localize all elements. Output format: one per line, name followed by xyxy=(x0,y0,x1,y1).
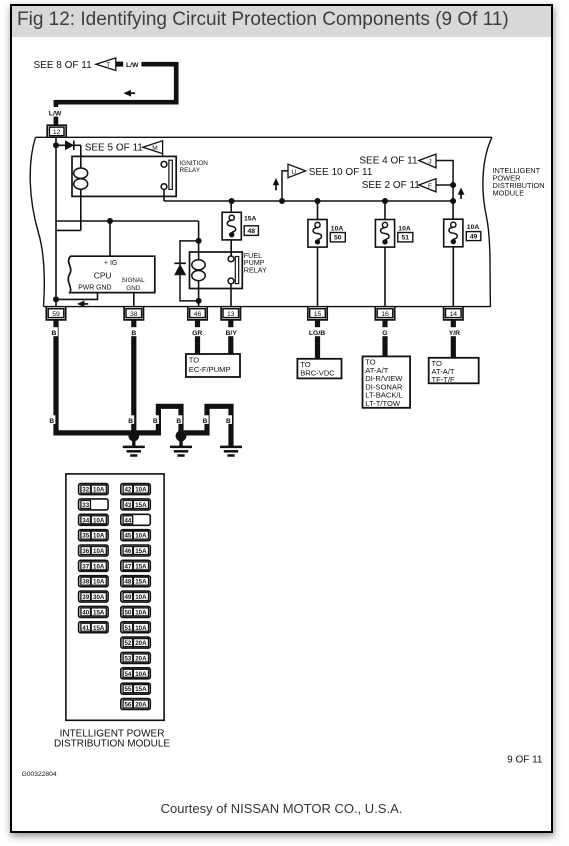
svg-text:15A: 15A xyxy=(135,579,147,586)
svg-text:B: B xyxy=(176,418,181,425)
svg-text:B: B xyxy=(226,418,231,425)
svg-text:+ IG: + IG xyxy=(104,260,117,267)
svg-text:G00322804: G00322804 xyxy=(22,771,57,778)
svg-text:20A: 20A xyxy=(135,702,147,709)
svg-text:13: 13 xyxy=(227,311,235,318)
svg-text:16: 16 xyxy=(381,311,389,318)
svg-text:15: 15 xyxy=(314,311,322,318)
svg-text:50: 50 xyxy=(124,609,131,616)
svg-text:54: 54 xyxy=(124,671,131,678)
svg-text:LT-T/TOW: LT-T/TOW xyxy=(365,399,401,408)
svg-text:40: 40 xyxy=(82,609,89,616)
svg-text:51: 51 xyxy=(402,235,410,242)
svg-text:32: 32 xyxy=(82,487,89,494)
svg-text:Y/R: Y/R xyxy=(449,330,460,337)
svg-text:9 OF 11: 9 OF 11 xyxy=(507,755,543,766)
svg-text:15A: 15A xyxy=(135,502,147,509)
svg-text:PWR GND: PWR GND xyxy=(78,285,111,292)
svg-text:50: 50 xyxy=(334,235,342,242)
svg-text:36: 36 xyxy=(82,548,89,555)
svg-text:TO: TO xyxy=(189,356,200,365)
svg-text:10A: 10A xyxy=(135,487,147,494)
svg-text:10A: 10A xyxy=(398,225,411,232)
svg-text:TF-T/F: TF-T/F xyxy=(432,375,456,384)
svg-text:B/Y: B/Y xyxy=(226,330,238,337)
svg-text:SEE 2 OF 11: SEE 2 OF 11 xyxy=(362,180,421,191)
svg-text:15A: 15A xyxy=(135,686,147,693)
svg-text:33: 33 xyxy=(82,502,89,509)
svg-text:38: 38 xyxy=(130,311,138,318)
svg-text:CPU: CPU xyxy=(94,270,112,280)
svg-text:10A: 10A xyxy=(93,533,105,540)
svg-text:48: 48 xyxy=(248,228,256,235)
svg-text:38: 38 xyxy=(82,579,89,586)
svg-text:37: 37 xyxy=(82,563,89,570)
svg-text:44: 44 xyxy=(124,517,131,524)
svg-text:10A: 10A xyxy=(93,517,105,524)
svg-text:DISTRIBUTION MODULE: DISTRIBUTION MODULE xyxy=(54,739,170,750)
svg-text:10A: 10A xyxy=(135,609,147,616)
svg-text:15A: 15A xyxy=(135,548,147,555)
svg-text:10A: 10A xyxy=(93,487,105,494)
svg-text:RELAY: RELAY xyxy=(244,265,267,274)
svg-text:56: 56 xyxy=(124,702,131,709)
svg-text:IGNITION: IGNITION xyxy=(180,160,209,167)
svg-text:EC-F/PUMP: EC-F/PUMP xyxy=(189,365,231,374)
svg-text:10A: 10A xyxy=(93,579,105,586)
svg-text:46: 46 xyxy=(124,548,131,555)
svg-text:U: U xyxy=(291,169,296,176)
svg-text:B: B xyxy=(131,330,136,337)
svg-text:10A: 10A xyxy=(135,671,147,678)
svg-text:GR: GR xyxy=(192,330,202,337)
svg-text:10A: 10A xyxy=(135,594,147,601)
svg-text:48: 48 xyxy=(124,579,131,586)
svg-text:10A: 10A xyxy=(93,548,105,555)
svg-text:BRC-VDC: BRC-VDC xyxy=(300,369,335,378)
svg-text:B: B xyxy=(52,330,57,337)
svg-text:30A: 30A xyxy=(93,594,105,601)
svg-text:35: 35 xyxy=(82,533,89,540)
svg-text:10A: 10A xyxy=(135,625,147,632)
svg-text:L/W: L/W xyxy=(49,110,62,117)
svg-text:42: 42 xyxy=(124,487,131,494)
svg-text:55: 55 xyxy=(124,686,131,693)
svg-text:SEE 4 OF 11: SEE 4 OF 11 xyxy=(359,156,418,167)
svg-text:SEE 10 OF 11: SEE 10 OF 11 xyxy=(309,167,373,178)
svg-text:L/W: L/W xyxy=(126,62,139,69)
svg-text:F: F xyxy=(428,183,432,190)
svg-text:B: B xyxy=(49,418,54,425)
svg-text:RELAY: RELAY xyxy=(180,167,201,174)
svg-text:10A: 10A xyxy=(93,563,105,570)
svg-text:SIGNAL: SIGNAL xyxy=(122,277,146,284)
svg-text:49: 49 xyxy=(470,233,478,240)
svg-text:10A: 10A xyxy=(135,533,147,540)
svg-text:G: G xyxy=(382,330,387,337)
svg-text:15A: 15A xyxy=(135,563,147,570)
svg-text:49: 49 xyxy=(124,594,131,601)
svg-text:59: 59 xyxy=(52,311,60,318)
svg-text:34: 34 xyxy=(82,517,89,524)
svg-text:41: 41 xyxy=(82,625,89,632)
svg-text:51: 51 xyxy=(124,625,131,632)
svg-text:20A: 20A xyxy=(135,640,147,647)
svg-text:52: 52 xyxy=(124,640,131,647)
svg-text:46: 46 xyxy=(194,311,202,318)
svg-text:B: B xyxy=(128,418,133,425)
svg-text:10A: 10A xyxy=(331,225,344,232)
svg-text:SEE 8 OF 11: SEE 8 OF 11 xyxy=(34,60,93,71)
svg-text:M: M xyxy=(152,145,157,152)
svg-text:43: 43 xyxy=(124,502,131,509)
svg-text:10A: 10A xyxy=(467,224,480,231)
svg-text:20A: 20A xyxy=(135,655,147,662)
svg-text:B: B xyxy=(153,418,158,425)
svg-text:15A: 15A xyxy=(93,609,105,616)
svg-text:47: 47 xyxy=(124,563,131,570)
svg-text:J: J xyxy=(428,158,431,165)
svg-text:14: 14 xyxy=(450,311,458,318)
svg-text:45: 45 xyxy=(124,533,131,540)
svg-text:12: 12 xyxy=(53,129,61,136)
svg-text:53: 53 xyxy=(124,655,131,662)
svg-text:T: T xyxy=(106,62,110,69)
svg-text:LG/B: LG/B xyxy=(309,330,325,337)
svg-text:SEE 5 OF 11: SEE 5 OF 11 xyxy=(85,142,144,153)
svg-text:GND: GND xyxy=(126,285,140,292)
svg-text:39: 39 xyxy=(82,594,89,601)
svg-text:15A: 15A xyxy=(244,215,257,222)
svg-text:B: B xyxy=(203,418,208,425)
svg-text:MODULE: MODULE xyxy=(493,189,525,198)
svg-text:15A: 15A xyxy=(93,625,105,632)
